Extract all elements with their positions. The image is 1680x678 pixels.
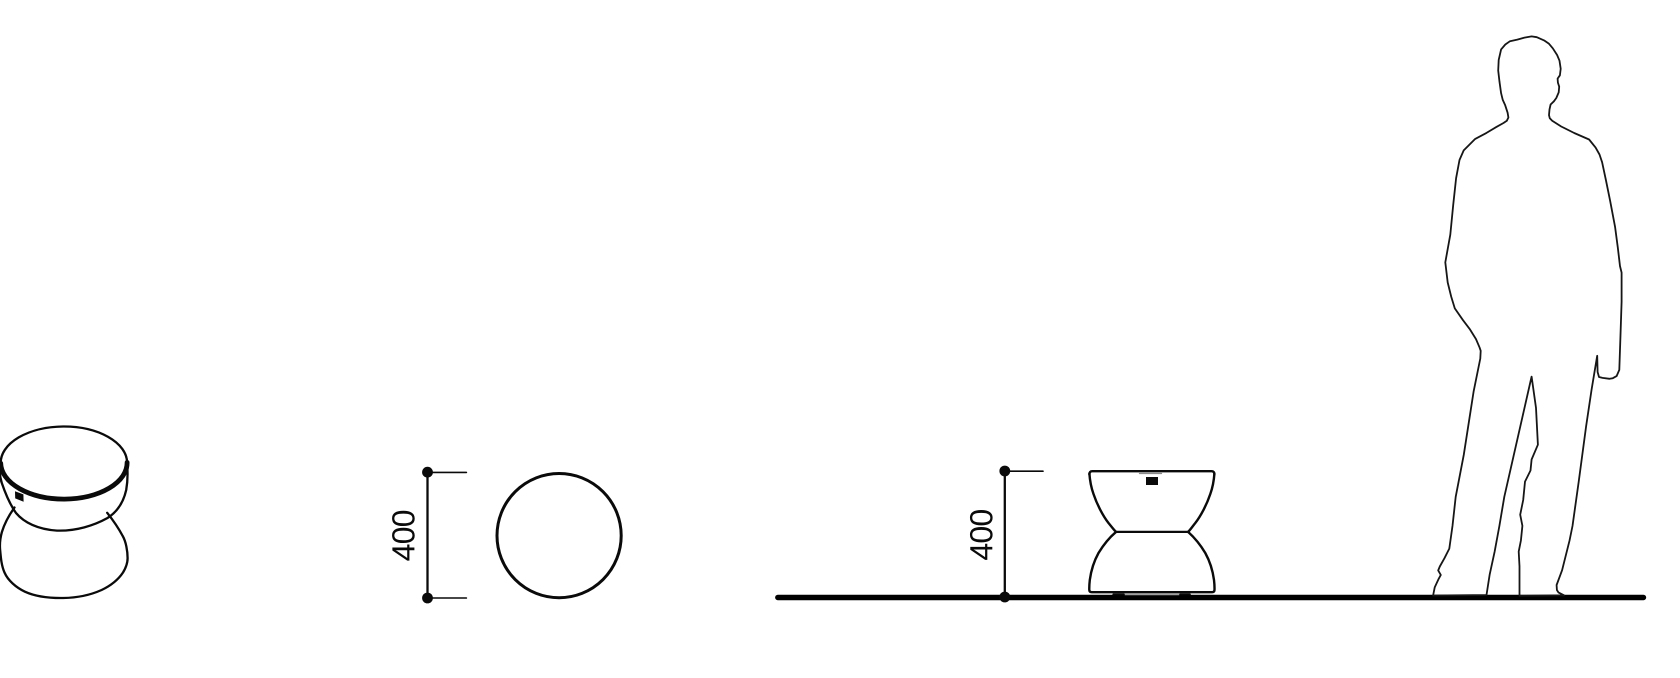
stool upper half sides <box>1089 474 1116 532</box>
dimension tick top right <box>1005 470 1043 472</box>
stool label tag (black parallelogram) <box>15 491 24 501</box>
dimension text 400 (elevation) <box>970 510 993 560</box>
dimension dot top <box>999 466 1010 477</box>
stool top edge <box>1089 471 1214 474</box>
dimension extension line vertical <box>426 472 428 598</box>
stool foot right <box>1180 593 1190 595</box>
stool foot left <box>1113 593 1124 595</box>
top view circle (seat plan) <box>497 473 621 597</box>
stool seat rim thick band (ellipse lower arc) <box>1 462 127 499</box>
dimension dot bottom on ground <box>999 592 1010 603</box>
dimension text 400 (top view) <box>392 511 415 561</box>
perspective stool view (left) <box>0 426 128 598</box>
human scale figure outline <box>1433 36 1622 595</box>
dimension dot bottom <box>422 593 433 604</box>
dimension dot top <box>422 467 433 478</box>
dimension tick bottom <box>428 597 467 599</box>
stool lower half <box>1089 532 1214 592</box>
dimension tick top <box>428 471 467 473</box>
elevation stool outline <box>1089 471 1214 594</box>
stool seam under top faint <box>1140 473 1162 475</box>
stool seat top ellipse upper arc <box>1 426 127 463</box>
stool waist seam <box>1116 531 1188 533</box>
stool logo square (elevation) <box>1146 477 1158 485</box>
stool upper bowl <box>0 464 127 531</box>
top view (middle): dimension line 400 <box>428 472 467 598</box>
elevation dimension line 400 <box>1005 471 1043 597</box>
ground line <box>778 595 1644 600</box>
stool base plinth line faint <box>1125 594 1179 596</box>
stool lower bowl <box>0 508 128 599</box>
